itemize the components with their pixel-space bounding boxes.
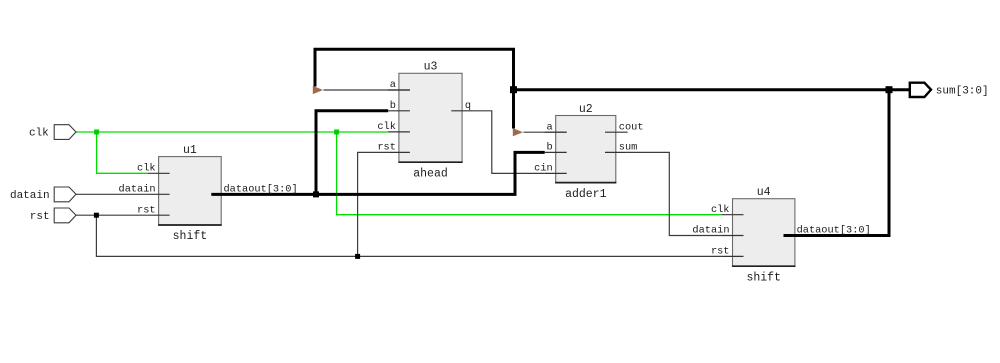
pin u4.clk [721, 214, 743, 216]
pin u3.a [388, 89, 410, 91]
block u2 body [556, 116, 616, 183]
pin u4.datain [721, 235, 743, 237]
pin u2.cin [545, 172, 567, 174]
svg-text:dataout[3:0]: dataout[3:0] [797, 225, 871, 237]
svg-text:u4: u4 [757, 186, 771, 199]
svg-text:dataout[3:0]: dataout[3:0] [224, 183, 298, 195]
node junction sum at u2 column [510, 86, 517, 93]
svg-text:cout: cout [619, 121, 644, 133]
pin u2.a [545, 131, 567, 133]
pin u2.b [545, 151, 567, 153]
wire u3.a thin from arrow [324, 89, 410, 91]
pin u2.sum [605, 151, 627, 153]
svg-text:rst: rst [137, 204, 156, 216]
block u4 body [733, 199, 795, 267]
svg-text:shift: shift [173, 230, 208, 243]
port datain [54, 187, 76, 202]
svg-text:sum[3:0]: sum[3:0] [936, 85, 989, 97]
svg-text:u2: u2 [579, 103, 593, 116]
wire green drop to u4 clk [337, 132, 722, 215]
wire thick u1out net: u1.dataout right then up to u2.b [211, 152, 544, 194]
svg-text:cin: cin [534, 163, 553, 175]
wire u2.a thin from arrow [524, 131, 567, 133]
svg-text:u3: u3 [424, 61, 438, 74]
node junction u1out branch [313, 191, 319, 197]
arrow feedback into u3.a [313, 86, 323, 94]
pin u3.b [388, 110, 410, 112]
svg-text:rst: rst [30, 211, 50, 223]
block u4 bottom shade [732, 265, 795, 267]
arrow feedback into u2.a [513, 128, 523, 136]
pin u3.clk [388, 131, 410, 133]
block u1 body [159, 157, 222, 225]
svg-text:a: a [547, 121, 553, 133]
wire u2.sum to u4.datain [627, 152, 722, 235]
svg-text:b: b [390, 100, 396, 112]
wire rst branch up to u3 rst [358, 152, 389, 256]
svg-text:clk: clk [377, 121, 396, 133]
svg-text:a: a [390, 79, 396, 91]
block u2 bottom shade [555, 182, 616, 184]
wire q net u3.q to u2.cin [473, 111, 545, 174]
svg-text:datain: datain [692, 225, 729, 237]
svg-text:shift: shift [746, 271, 781, 284]
node green junction at clk port branch [94, 130, 99, 135]
node junction sum at port column [886, 86, 893, 93]
wire thick u1out branch up to u3.b [316, 111, 388, 195]
wire datain port to u1 [76, 193, 148, 195]
wire green clk net main horizontal [76, 131, 388, 133]
block u3 body [399, 73, 462, 162]
wire thick sum net top loop [315, 49, 514, 128]
pin u2.cout [605, 131, 628, 133]
wire rst port to u1 [76, 214, 148, 216]
wire thick sum net drop to u4.dataout [784, 90, 890, 236]
pin u4.rst [721, 255, 743, 257]
pin u1.rst [148, 214, 170, 216]
svg-text:datain: datain [119, 183, 156, 195]
svg-text:ahead: ahead [413, 167, 448, 180]
block u3 bottom shade [398, 161, 462, 163]
svg-text:rst: rst [711, 246, 730, 258]
svg-text:q: q [465, 100, 471, 112]
svg-text:clk: clk [711, 204, 730, 216]
wire thick sum net main horizontal to port [514, 88, 910, 91]
svg-text:datain: datain [10, 190, 50, 202]
port clk [54, 125, 76, 140]
svg-text:b: b [547, 142, 553, 154]
pin u1.datain [148, 193, 170, 195]
wire green drop to u1 clk [97, 132, 148, 173]
node green junction at u4 branch [334, 130, 339, 135]
node junction rst port branch [94, 213, 99, 218]
svg-text:rst: rst [377, 142, 396, 154]
pin u3.q [451, 110, 473, 112]
svg-text:adder1: adder1 [565, 188, 607, 201]
pin u1.clk [148, 172, 170, 174]
block u1 bottom shade [158, 224, 222, 226]
svg-text:u1: u1 [183, 144, 197, 157]
port rst [54, 208, 76, 223]
node junction rst u3 branch [355, 254, 360, 259]
pin u3.rst [388, 151, 410, 153]
svg-text:clk: clk [29, 128, 49, 140]
svg-text:clk: clk [137, 162, 156, 174]
port sum[3:0] output [910, 83, 931, 97]
wire rst net drop and long horizontal to u4 [96, 215, 721, 256]
svg-text:sum: sum [619, 142, 638, 154]
